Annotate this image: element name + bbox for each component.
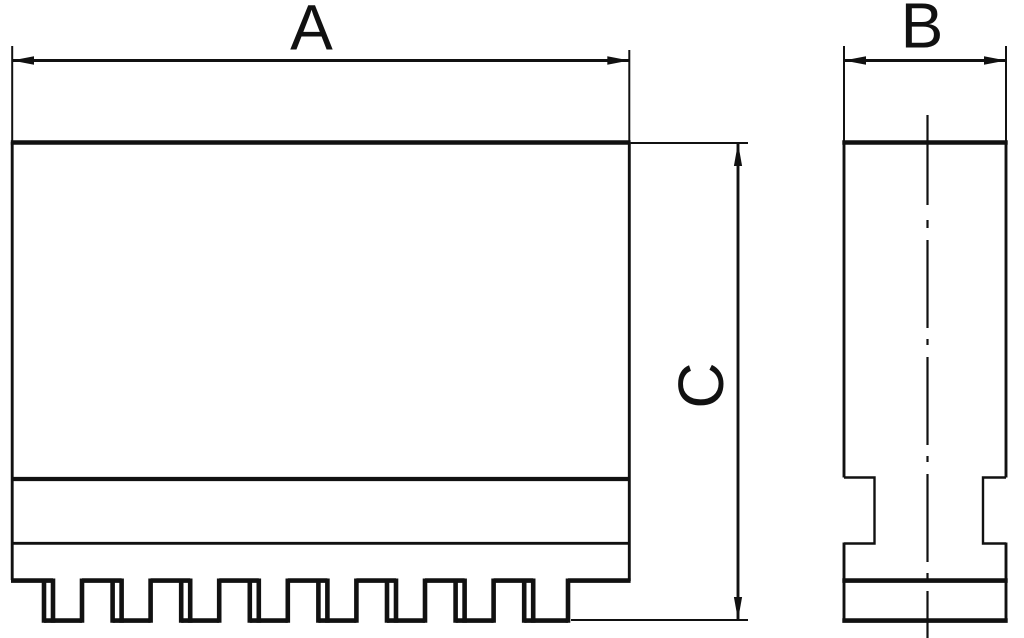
- serration groove bottom line: [44, 618, 568, 623]
- side view right edge lower: [1005, 543, 1008, 582]
- extension line C top: [631, 142, 748, 144]
- arrowhead A left: [12, 56, 34, 64]
- center line: [926, 115, 928, 638]
- arrowhead C bottom: [734, 597, 742, 620]
- front view guide groove lower line: [11, 542, 630, 545]
- front view top edge: [11, 140, 631, 145]
- side view left edge upper: [843, 142, 846, 478]
- extension line B right: [1005, 46, 1007, 141]
- side view left edge lower: [843, 543, 846, 582]
- side view serration band top line: [842, 578, 1007, 583]
- front view guide groove upper line: [11, 477, 630, 481]
- extension line C bottom: [571, 619, 748, 621]
- arrowhead B left: [844, 56, 866, 64]
- extension line A right: [628, 50, 630, 143]
- front view left edge: [11, 142, 14, 580]
- side view serration band bottom line: [842, 618, 1007, 623]
- dimension line C: [737, 143, 740, 620]
- dimension line B: [844, 59, 1006, 62]
- serration groove walls: [44, 579, 568, 623]
- side view serration band right edge: [1005, 579, 1008, 622]
- side view right edge upper: [1005, 142, 1008, 478]
- extension line A left: [11, 46, 13, 143]
- svg-text:A: A: [290, 0, 333, 64]
- svg-text:B: B: [901, 0, 944, 62]
- arrowhead A right: [607, 56, 629, 64]
- side view left notch: [844, 478, 875, 544]
- serration top land line: [11, 578, 631, 583]
- front view right edge: [628, 142, 631, 581]
- side view top edge: [842, 140, 1007, 145]
- side view right notch: [983, 478, 1006, 544]
- extension line B left: [843, 46, 845, 141]
- arrowhead C top: [734, 143, 742, 166]
- dimension line A: [12, 59, 629, 62]
- side view serration band left edge: [843, 579, 846, 622]
- svg-text:C: C: [665, 362, 737, 408]
- arrowhead B right: [984, 56, 1006, 64]
